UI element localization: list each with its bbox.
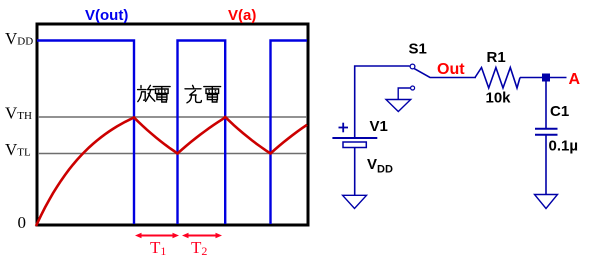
capacitor C1 <box>535 129 558 135</box>
gridline VTL <box>38 153 307 155</box>
wire node A to C1 <box>545 82 547 129</box>
svg-text:0: 0 <box>18 213 27 232</box>
svg-text:VDD: VDD <box>367 156 393 176</box>
switch S1 <box>410 64 476 77</box>
svg-text:0.1µ: 0.1µ <box>549 138 579 155</box>
label 放電 (discharge) <box>138 85 171 102</box>
svg-text:V1: V1 <box>370 118 388 135</box>
T1 interval arrow <box>135 233 179 239</box>
label 充電 (charge) <box>185 85 221 102</box>
T2 interval arrow <box>182 233 222 239</box>
switch S1 control terminal <box>398 86 414 100</box>
wire V1 to ground <box>354 148 356 196</box>
svg-text:Out: Out <box>437 61 465 78</box>
waveform V(a) red capacitor voltage <box>36 117 307 226</box>
resistor R1 <box>475 68 520 89</box>
plot axes box <box>37 24 308 225</box>
wire R1 to node A <box>520 77 567 79</box>
svg-text:V(a): V(a) <box>228 7 256 24</box>
battery V1 <box>332 138 377 148</box>
svg-text:R1: R1 <box>487 49 506 66</box>
svg-text:V(out): V(out) <box>85 7 128 24</box>
svg-text:VTL: VTL <box>5 140 31 159</box>
gridline VTH <box>38 116 307 118</box>
svg-text:VTH: VTH <box>5 104 32 123</box>
battery V1 plus sign <box>339 123 349 133</box>
waveform V(out) blue square wave <box>37 41 307 225</box>
svg-text:T1: T1 <box>150 238 166 258</box>
ground (switch control) <box>386 100 411 112</box>
wire V1 top to switch S1 <box>355 66 410 138</box>
junction node <box>542 74 550 82</box>
ground (C1) <box>535 195 558 209</box>
svg-text:C1: C1 <box>550 103 569 120</box>
ground (V1) <box>343 195 367 208</box>
wire C1 to ground <box>545 136 547 195</box>
svg-text:T2: T2 <box>191 238 207 258</box>
svg-text:VDD: VDD <box>5 29 33 48</box>
svg-text:A: A <box>569 71 581 88</box>
svg-text:S1: S1 <box>409 41 427 58</box>
svg-text:10k: 10k <box>486 90 512 107</box>
